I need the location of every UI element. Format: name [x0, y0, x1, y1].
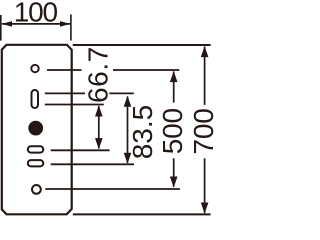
dimension 100: left arrowhead [2, 21, 13, 27]
leader L1 from top circle (left segment) [47, 69, 82, 71]
dimension 700: upper line segment [204, 47, 206, 105]
dimension 500: lower line segment [173, 158, 175, 187]
hole: top small circle [31, 65, 38, 72]
mounting plate outline [2, 45, 72, 215]
hole: bottom small circle [32, 185, 41, 194]
dimension 500: upper line segment [173, 72, 175, 103]
dimension 83.5: line [127, 97, 129, 164]
dimension 700: lower line segment [204, 158, 206, 213]
dimension 100: right extension line [70, 14, 72, 40]
leader L3 from slot bottom [45, 104, 104, 106]
dimension 100: right arrowhead [60, 21, 70, 27]
hole: filled black circle [28, 121, 43, 136]
leader A from slot 1 [51, 149, 110, 151]
svg-text:500: 500 [157, 108, 188, 154]
leader B from slot 2 [51, 163, 134, 165]
dimension 700: bottom arrowhead [201, 203, 209, 214]
hole: slot 2 (lower horizontal) [28, 160, 44, 166]
svg-text:66.7: 66.7 [82, 46, 113, 103]
leader L2 from slot top (right segment) [109, 92, 134, 94]
dimension 83.5: bottom arrowhead [124, 153, 132, 164]
leader L2 from slot top (left segment) [45, 92, 85, 94]
svg-text:100: 100 [14, 0, 58, 28]
hole: top vertical slot [32, 90, 39, 108]
leader L1 from top circle (right segment) [113, 69, 179, 71]
bottom extension line (plate bottom, to the right) [73, 213, 211, 215]
top extension line (plate top, to the right) [73, 44, 211, 46]
dimension 500: bottom arrowhead [170, 177, 178, 188]
svg-text:700: 700 [188, 108, 219, 154]
dimension 500: top arrowhead [170, 71, 178, 82]
dimension 66.7: bottom arrowhead [95, 138, 103, 149]
leader from bottom circle [45, 188, 180, 190]
dimension 83.5: top arrowhead [124, 96, 132, 107]
dimension 66.7: top arrowhead [95, 105, 103, 116]
hole: slot 1 (upper horizontal) [28, 146, 44, 152]
dimension 66.7: line [98, 106, 100, 149]
dimension 700: top arrowhead [201, 46, 209, 57]
dimension 100: left extension line [0, 15, 2, 41]
dimension 100: dimension line [2, 23, 70, 25]
svg-text:83.5: 83.5 [127, 105, 158, 160]
